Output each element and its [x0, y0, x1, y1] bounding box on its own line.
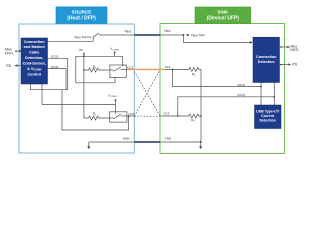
svg-text:5V: 5V — [79, 48, 84, 52]
svg-text:CC2: CC2 — [128, 112, 134, 116]
svg-text:Rp: Rp — [93, 112, 97, 117]
svg-text:and Marked: and Marked — [24, 45, 46, 49]
svg-text:Detection: Detection — [258, 60, 276, 64]
svg-text:GND: GND — [123, 136, 131, 140]
svg-text:[CC1]: [CC1] — [51, 55, 59, 59]
svg-text:SINK: SINK — [217, 9, 229, 14]
svg-text:VBUS: VBUS — [125, 29, 132, 34]
svg-text:[CC2]: [CC2] — [237, 93, 245, 97]
svg-text:SOURCE: SOURCE — [72, 9, 92, 14]
svg-text:Rd: Rd — [192, 72, 196, 77]
svg-text:Cold-Socket,: Cold-Socket, — [23, 61, 46, 65]
svg-text:CNTL: CNTL — [290, 48, 299, 52]
svg-text:Control: Control — [27, 72, 41, 76]
svg-text:VBUS: VBUS — [164, 28, 171, 33]
svg-text:GND: GND — [165, 136, 173, 140]
svg-text:VBUS Source: VBUS Source — [74, 35, 92, 40]
svg-text:[CC1]: [CC1] — [237, 83, 245, 87]
svg-text:(Device/ UFP): (Device/ UFP) — [207, 16, 240, 22]
svg-text:VCONN: VCONN — [108, 94, 117, 99]
svg-text:Connection: Connection — [256, 55, 277, 59]
svg-text:Connection: Connection — [24, 40, 46, 44]
svg-text:CC1: CC1 — [127, 65, 133, 69]
svg-text:VCONN: VCONN — [110, 47, 119, 52]
svg-text:Cable: Cable — [29, 51, 39, 55]
svg-text:CC2: CC2 — [163, 111, 169, 115]
svg-text:CC1: CC1 — [165, 65, 171, 69]
svg-text:Detection: Detection — [260, 118, 276, 122]
svg-text:Detection,: Detection, — [25, 56, 43, 60]
svg-text:[CC2]: [CC2] — [51, 65, 59, 69]
svg-text:Rd: Rd — [191, 118, 195, 123]
svg-text:CNTL: CNTL — [5, 51, 14, 55]
svg-text:Current: Current — [261, 114, 275, 118]
svg-text:PD: PD — [6, 64, 11, 68]
svg-text:PD: PD — [292, 63, 297, 67]
svg-text:Rp: Rp — [93, 64, 97, 69]
svg-text:VBUS Sink: VBUS Sink — [191, 33, 205, 38]
svg-text:USB Type-C®: USB Type-C® — [256, 110, 279, 114]
svg-text:(Host / DFP): (Host / DFP) — [67, 16, 96, 22]
